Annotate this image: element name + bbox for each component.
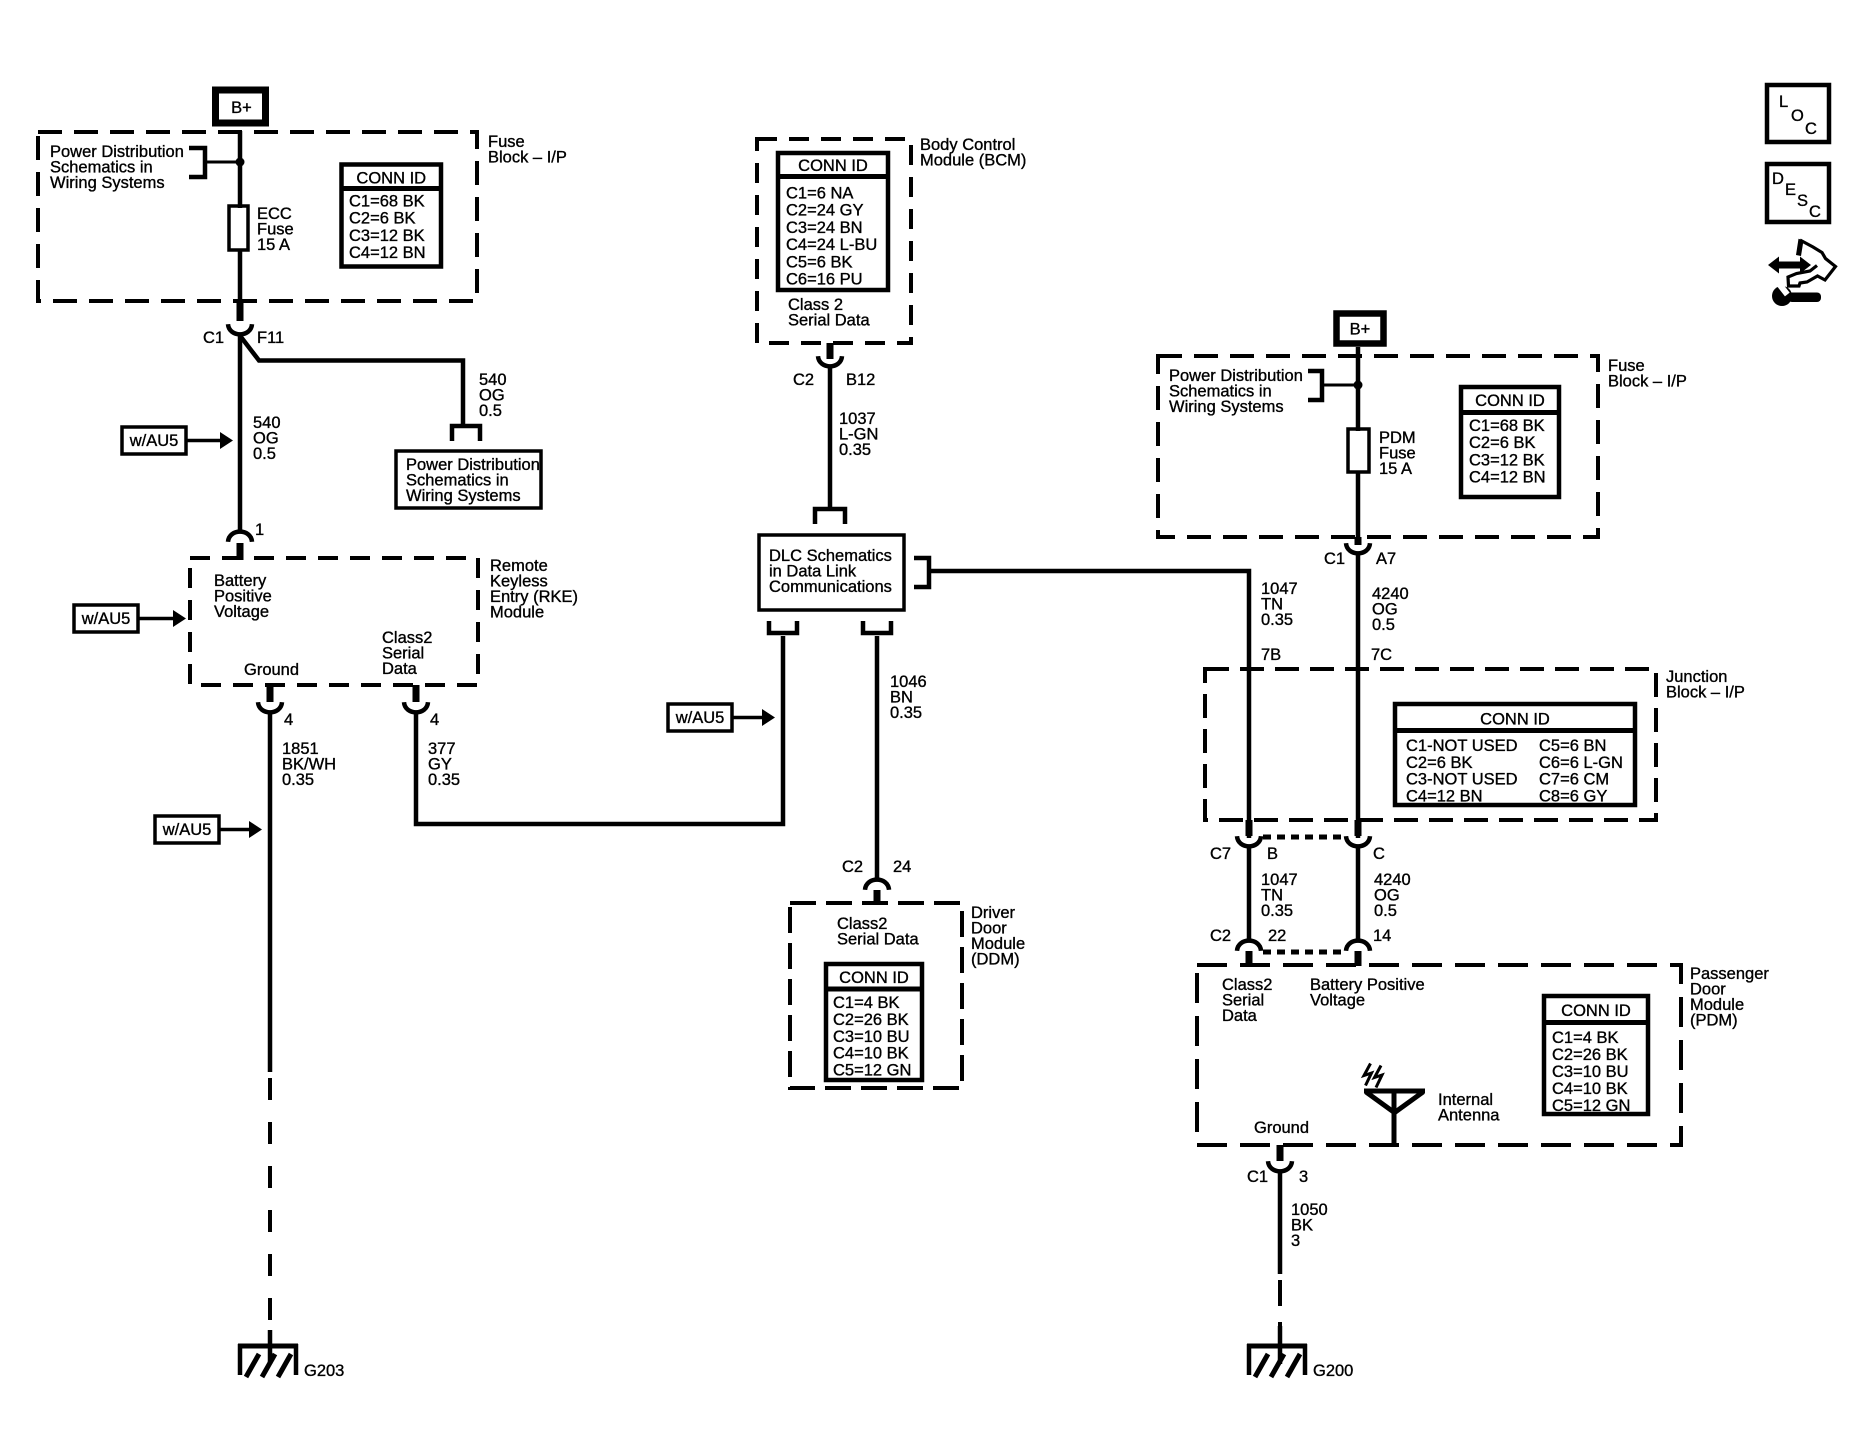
PDM ground connector C1 pin 3: terminal cup xyxy=(1268,1161,1292,1171)
svg-text:C1=68 BK: C1=68 BK xyxy=(1469,417,1545,435)
svg-text:G200: G200 xyxy=(1313,1362,1353,1380)
junction pin C: male pin xyxy=(1355,820,1362,836)
BCM connector C2 pin B12: terminal cup xyxy=(818,356,842,366)
terminal bracket on DLC box (right) xyxy=(914,558,929,587)
bracket from note to wire (left fuse block) xyxy=(189,148,205,177)
svg-text:C2=24 GY: C2=24 GY xyxy=(786,202,864,220)
svg-text:Wiring Systems: Wiring Systems xyxy=(50,174,165,192)
junction node on B+ bus (left) xyxy=(236,158,245,167)
CONN ID table (DDM) xyxy=(826,964,922,1080)
svg-text:Module (BCM): Module (BCM) xyxy=(920,152,1026,170)
svg-text:15 A: 15 A xyxy=(1379,460,1412,478)
wire 540 OG main run down xyxy=(238,333,243,532)
fuse PDM 15A xyxy=(1348,429,1416,478)
svg-text:0.35: 0.35 xyxy=(1261,902,1293,920)
svg-text:C: C xyxy=(1809,203,1821,221)
junction block I/P dashed outline xyxy=(1205,669,1656,820)
svg-text:C6=16 PU: C6=16 PU xyxy=(786,271,863,289)
svg-text:Voltage: Voltage xyxy=(1310,992,1365,1010)
BCM connector C2 pin B12: male pin xyxy=(827,343,834,359)
svg-text:Wiring Systems: Wiring Systems xyxy=(1169,398,1284,416)
wire 1047 TN from DLC to junction block xyxy=(929,571,1249,838)
svg-text:C4=12 BN: C4=12 BN xyxy=(1469,469,1546,487)
svg-text:C6=6 L-GN: C6=6 L-GN xyxy=(1539,754,1623,772)
svg-text:C7=6 CM: C7=6 CM xyxy=(1539,771,1609,789)
svg-text:Module: Module xyxy=(490,604,544,622)
svg-text:C2: C2 xyxy=(793,371,814,389)
PDM pin 14: male pin xyxy=(1355,951,1362,966)
label 1851 BK/WH 0.35 xyxy=(282,740,336,789)
CONN ID table (left fuse block) xyxy=(342,165,442,267)
cross-reference icon: wrench xyxy=(1772,282,1821,306)
svg-text:C4=24 L-BU: C4=24 L-BU xyxy=(786,236,877,254)
terminal bracket on power distribution ref box xyxy=(452,426,480,441)
label: Battery Positive Voltage (PDM) xyxy=(1310,976,1425,1010)
svg-text:0.35: 0.35 xyxy=(428,771,460,789)
PDM module dashed outline xyxy=(1197,965,1681,1145)
label: Internal Antenna xyxy=(1438,1091,1500,1125)
svg-text:0.5: 0.5 xyxy=(1372,616,1395,634)
BCM module dashed outline xyxy=(757,139,911,343)
svg-text:7C: 7C xyxy=(1371,646,1392,664)
connector pin 1 (RKE): terminal dome xyxy=(228,532,252,542)
svg-text:G203: G203 xyxy=(304,1362,344,1380)
svg-text:15 A: 15 A xyxy=(257,236,290,254)
svg-text:L: L xyxy=(1779,93,1788,111)
svg-text:S: S xyxy=(1797,192,1808,210)
svg-text:Block – I/P: Block – I/P xyxy=(1666,684,1745,702)
svg-text:Block – I/P: Block – I/P xyxy=(488,149,567,167)
label 377 GY 0.35 xyxy=(428,740,460,789)
label: Remote Keyless Entry (RKE) Module xyxy=(490,557,578,622)
ground symbol G203 xyxy=(238,1344,298,1377)
terminal bracket on DLC box (bottom left, to 377 GY) xyxy=(769,621,797,633)
svg-text:0.5: 0.5 xyxy=(479,402,502,420)
junction connector C7 pin B: terminal cup xyxy=(1237,836,1261,846)
svg-text:C: C xyxy=(1373,845,1385,863)
svg-text:0.35: 0.35 xyxy=(282,771,314,789)
svg-text:C2: C2 xyxy=(1210,927,1231,945)
svg-text:C4=12 BN: C4=12 BN xyxy=(349,244,426,262)
cross-reference icon: double arrow xyxy=(1768,257,1811,274)
connector C1 pin F11: terminal cup xyxy=(228,324,252,334)
label 4240 OG 0.5 (lower) xyxy=(1374,871,1411,920)
fuse ECC 15A xyxy=(229,205,294,254)
label: Class2 Serial Data (DDM) xyxy=(837,915,919,949)
svg-text:C2=6 BK: C2=6 BK xyxy=(1469,434,1536,452)
wire: fuse to connector C1 F11 xyxy=(238,250,243,303)
svg-text:(DDM): (DDM) xyxy=(971,951,1020,969)
svg-text:C2=6 BK: C2=6 BK xyxy=(1406,754,1473,772)
label: Passenger Door Module (PDM) xyxy=(1690,965,1769,1030)
svg-text:C8=6 GY: C8=6 GY xyxy=(1539,787,1607,805)
svg-text:Antenna: Antenna xyxy=(1438,1107,1500,1125)
wire 4240 OG (lower segment) xyxy=(1356,846,1361,941)
DDM connector C2 pin 24: terminal dome xyxy=(865,880,889,890)
svg-text:D: D xyxy=(1772,170,1784,188)
wire 1046 BN down to DDM xyxy=(875,636,880,880)
RKE ground pin 4: male pin xyxy=(267,685,274,702)
terminal bracket on DLC box (bottom right, to 1046 BN) xyxy=(863,621,891,633)
svg-text:C3=12 BK: C3=12 BK xyxy=(1469,451,1545,469)
svg-text:C1: C1 xyxy=(203,329,224,347)
svg-text:Communications: Communications xyxy=(769,578,892,596)
junction connector pin C: terminal cup xyxy=(1346,836,1370,846)
label 540 OG 0.5 (branch) xyxy=(479,371,507,420)
power symbol B+ (right battery feed) xyxy=(1337,314,1384,344)
label: Driver Door Module (DDM) xyxy=(971,904,1025,969)
svg-text:0.5: 0.5 xyxy=(1374,902,1397,920)
label: Battery Positive Voltage xyxy=(214,572,272,621)
internal antenna symbol xyxy=(1364,1064,1425,1147)
connector C1 pin A7: male pin xyxy=(1355,537,1362,545)
svg-text:Serial Data: Serial Data xyxy=(788,312,870,330)
RKE class2 pin 4: male pin xyxy=(413,685,420,702)
svg-text:4: 4 xyxy=(284,711,293,729)
svg-text:0.35: 0.35 xyxy=(1261,611,1293,629)
svg-text:Voltage: Voltage xyxy=(214,603,269,621)
svg-text:Data: Data xyxy=(1222,1007,1258,1025)
svg-text:C5=6 BN: C5=6 BN xyxy=(1539,737,1606,755)
wire 1050 BK down from PDM xyxy=(1278,1171,1283,1274)
svg-text:C3=10 BU: C3=10 BU xyxy=(833,1028,910,1046)
svg-text:C1: C1 xyxy=(1247,1168,1268,1186)
wire 4240 OG down to junction block xyxy=(1356,553,1361,838)
wire 377 GY from RKE class2 pin to DLC xyxy=(416,636,783,824)
junction pin B: male pin xyxy=(1246,820,1253,836)
svg-text:C4=10 BK: C4=10 BK xyxy=(833,1045,909,1063)
wire 1851 into ground xyxy=(268,1330,273,1364)
svg-text:B+: B+ xyxy=(231,99,252,117)
fuse block I/P (right) dashed outline xyxy=(1158,356,1598,537)
svg-text:w/AU5: w/AU5 xyxy=(162,821,212,839)
svg-text:C2: C2 xyxy=(842,858,863,876)
label: Fuse Block - I/P (left) xyxy=(488,133,567,167)
LOC icon box xyxy=(1767,85,1829,142)
svg-text:Ground: Ground xyxy=(244,661,299,679)
label: Class 2 Serial Data (BCM) xyxy=(788,296,870,330)
wire from B+ into right fuse block xyxy=(1356,347,1361,431)
CONN ID table (BCM) xyxy=(778,153,888,290)
svg-text:CONN ID: CONN ID xyxy=(1561,1002,1631,1020)
wire: PDM fuse to connector C1 A7 xyxy=(1356,472,1361,540)
CONN ID table (right fuse block) xyxy=(1461,387,1559,497)
wire 1851 dashed continuation xyxy=(268,1078,272,1330)
svg-text:CONN ID: CONN ID xyxy=(798,157,868,175)
svg-text:E: E xyxy=(1785,181,1796,199)
RKE module dashed outline xyxy=(190,558,478,685)
DDM module dashed outline xyxy=(790,903,962,1088)
wire 1050 BK into ground xyxy=(1278,1326,1283,1364)
svg-text:(PDM): (PDM) xyxy=(1690,1012,1738,1030)
label 4240 OG 0.5 (upper) xyxy=(1372,585,1409,634)
CONN ID table (junction block) xyxy=(1395,704,1635,805)
label 1037 L-GN 0.35 xyxy=(839,410,878,459)
wire from B+ into left fuse block xyxy=(238,131,243,208)
DLC schematics reference box xyxy=(759,535,904,610)
svg-text:Serial Data: Serial Data xyxy=(837,931,919,949)
note: power distribution schematics reference (left) xyxy=(50,143,184,192)
wire 1851 BK/WH down from RKE ground xyxy=(268,711,273,1072)
label 1047 TN 0.35 (lower) xyxy=(1261,871,1298,920)
power distribution schematics reference box xyxy=(396,451,541,508)
cross-reference icon: outline arrow xyxy=(1788,239,1836,286)
svg-text:B+: B+ xyxy=(1350,321,1371,339)
svg-text:C2=26 BK: C2=26 BK xyxy=(1552,1046,1628,1064)
svg-text:C3-NOT USED: C3-NOT USED xyxy=(1406,771,1518,789)
PDM pin 22: male pin xyxy=(1246,951,1253,966)
svg-text:C7: C7 xyxy=(1210,845,1231,863)
svg-text:Data: Data xyxy=(382,660,418,678)
bracket from note to wire (right fuse block) xyxy=(1308,371,1322,400)
svg-text:w/AU5: w/AU5 xyxy=(129,432,179,450)
dotted connector body line (lower) xyxy=(1263,950,1345,955)
connector C1 pin A7: terminal cup xyxy=(1346,543,1370,553)
label 1046 BN 0.35 xyxy=(890,673,927,722)
PDM ground pin 3: male pin xyxy=(1277,1145,1284,1161)
terminal bracket on DLC box (top) xyxy=(815,509,845,524)
svg-text:14: 14 xyxy=(1373,927,1391,945)
svg-text:C2=26 BK: C2=26 BK xyxy=(833,1011,909,1029)
connector pin 1: male pin into RKE xyxy=(237,543,244,560)
svg-text:7B: 7B xyxy=(1261,646,1281,664)
DDM connector C2 pin 24: male pin xyxy=(874,890,881,905)
wire 1037 L-GN down to DLC xyxy=(828,365,833,507)
PDM connector C2 pin 22: terminal dome xyxy=(1237,941,1261,951)
label: Fuse Block - I/P (right) xyxy=(1608,357,1687,391)
label: Body Control Module (BCM) xyxy=(920,136,1026,170)
label 1047 TN 0.35 (upper) xyxy=(1261,580,1298,629)
ground symbol G200 xyxy=(1247,1344,1307,1377)
wire: bracket to bus xyxy=(205,161,240,164)
CONN ID table (PDM) xyxy=(1544,996,1648,1115)
svg-text:w/AU5: w/AU5 xyxy=(675,709,725,727)
svg-text:CONN ID: CONN ID xyxy=(356,170,426,188)
label: Class2 Serial Data (PDM) xyxy=(1222,976,1272,1025)
svg-text:C3=12 BK: C3=12 BK xyxy=(349,227,425,245)
w/AU5 flag (at 1851 wire) xyxy=(155,816,262,843)
svg-text:A7: A7 xyxy=(1376,550,1396,568)
svg-text:B: B xyxy=(1267,845,1278,863)
w/AU5 flag (at RKE module) xyxy=(74,605,186,632)
svg-text:0.35: 0.35 xyxy=(839,441,871,459)
svg-text:24: 24 xyxy=(893,858,911,876)
label 540 OG 0.5 (main) xyxy=(253,414,281,463)
label 1050 BK 3 xyxy=(1291,1201,1328,1250)
svg-text:C4=10 BK: C4=10 BK xyxy=(1552,1080,1628,1098)
dotted connector body line (upper) xyxy=(1263,835,1345,840)
svg-text:C3=24 BN: C3=24 BN xyxy=(786,219,863,237)
note: power distribution schematics reference (right) xyxy=(1169,367,1303,416)
svg-text:B12: B12 xyxy=(846,371,875,389)
wire branch 540 OG to power distribution box xyxy=(241,337,463,426)
svg-text:0.35: 0.35 xyxy=(890,704,922,722)
wire: bracket to bus (right) xyxy=(1322,384,1358,387)
label: Junction Block - I/P xyxy=(1666,668,1745,702)
svg-text:CONN ID: CONN ID xyxy=(839,969,909,987)
svg-text:C1=4 BK: C1=4 BK xyxy=(1552,1029,1619,1047)
svg-text:F11: F11 xyxy=(257,329,284,347)
svg-text:0.5: 0.5 xyxy=(253,445,276,463)
svg-text:3: 3 xyxy=(1299,1168,1308,1186)
svg-text:C: C xyxy=(1805,120,1817,138)
PDM connector pin 14: terminal dome xyxy=(1346,941,1370,951)
label: Class2 Serial Data (RKE) xyxy=(382,629,432,678)
svg-text:Wiring Systems: Wiring Systems xyxy=(406,487,521,505)
svg-text:1: 1 xyxy=(255,521,264,539)
svg-text:C5=12 GN: C5=12 GN xyxy=(1552,1097,1630,1115)
svg-text:C1=68 BK: C1=68 BK xyxy=(349,193,425,211)
svg-text:4: 4 xyxy=(430,711,439,729)
DESC icon box xyxy=(1767,164,1829,222)
fuse block I/P (left) dashed outline xyxy=(38,132,477,301)
connector C1 pin F11: male pin xyxy=(237,302,244,321)
w/AU5 flag (at 540 OG wire) xyxy=(122,427,233,454)
RKE class2 pin 4: terminal cup xyxy=(404,702,428,712)
svg-text:C5=12 GN: C5=12 GN xyxy=(833,1062,911,1080)
svg-text:3: 3 xyxy=(1291,1232,1300,1250)
svg-text:C1=6 NA: C1=6 NA xyxy=(786,185,853,203)
svg-text:C1: C1 xyxy=(1324,550,1345,568)
svg-text:C4=12 BN: C4=12 BN xyxy=(1406,787,1483,805)
svg-text:Ground: Ground xyxy=(1254,1119,1309,1137)
wire 1047 TN (lower segment) xyxy=(1247,846,1252,941)
svg-text:C5=6 BK: C5=6 BK xyxy=(786,253,853,271)
w/AU5 flag (at 377 GY wire near DLC) xyxy=(668,704,775,731)
svg-text:C3=10 BU: C3=10 BU xyxy=(1552,1063,1629,1081)
junction node on B+ bus (right) xyxy=(1354,381,1363,390)
svg-text:C1-NOT USED: C1-NOT USED xyxy=(1406,737,1518,755)
svg-text:C2=6 BK: C2=6 BK xyxy=(349,210,416,228)
svg-text:CONN ID: CONN ID xyxy=(1475,392,1545,410)
svg-text:C1=4 BK: C1=4 BK xyxy=(833,994,900,1012)
svg-text:22: 22 xyxy=(1268,927,1286,945)
svg-text:O: O xyxy=(1791,107,1804,125)
svg-text:CONN ID: CONN ID xyxy=(1480,711,1550,729)
wire 1050 BK dashed continuation xyxy=(1278,1280,1282,1326)
svg-text:w/AU5: w/AU5 xyxy=(81,610,131,628)
power symbol B+ (left battery feed) xyxy=(216,90,266,123)
RKE ground pin 4: terminal cup xyxy=(258,702,282,712)
svg-text:Block – I/P: Block – I/P xyxy=(1608,373,1687,391)
